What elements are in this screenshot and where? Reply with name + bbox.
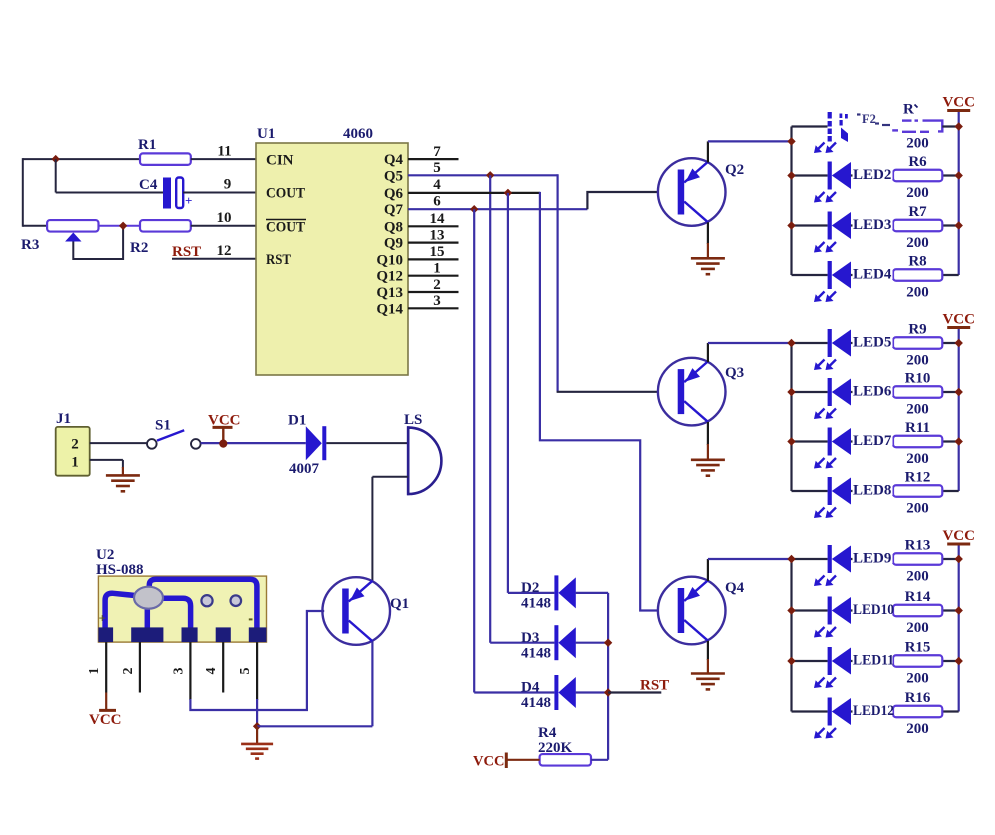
LED LED1 (partially erased) [828,112,832,119]
svg-text:+: + [185,193,192,208]
svg-text:VCC: VCC [473,754,504,770]
svg-text:D1: D1 [288,413,306,429]
svg-text:R12: R12 [905,470,931,486]
svg-text:LED5: LED5 [853,335,891,351]
wire row LED12 [792,710,828,712]
wire [707,343,709,362]
svg-text:4148: 4148 [521,645,551,661]
wire net Q7 (pin6) [408,208,587,210]
LED LED7 [828,428,832,456]
wire [508,592,555,594]
wire R3 wiper loop [73,226,123,259]
svg-text:RST: RST [172,244,201,260]
svg-text:200: 200 [906,353,929,369]
node junction [253,722,261,730]
wire [707,222,709,244]
svg-text:200: 200 [906,136,929,152]
svg-text:200: 200 [906,671,929,687]
svg-text:RST: RST [640,678,669,694]
svg-text:11: 11 [217,144,231,160]
wire pin 3 [408,307,459,309]
svg-text:R1: R1 [138,137,156,153]
svg-text:7: 7 [433,144,441,160]
svg-text:LED9: LED9 [853,551,891,567]
pad 3 [182,627,198,642]
svg-text:14: 14 [430,211,446,227]
svg-text:4060: 4060 [343,126,373,142]
resistor R6 200 [893,170,942,182]
wire [90,442,148,444]
melody chip blob [134,587,163,609]
wire LED bank 3 right bus [958,544,960,712]
node junction [604,688,612,696]
svg-text:R11: R11 [905,420,930,436]
svg-text:Q1: Q1 [390,596,409,612]
svg-text:LED7: LED7 [853,433,892,449]
diode D1 4007 [306,426,322,460]
svg-text:13: 13 [430,227,445,243]
node junction [955,657,963,665]
node junction [955,171,963,179]
wire pin5 [256,642,258,700]
wire [326,442,408,444]
LED LED9 [828,545,832,573]
wire [474,691,554,693]
wire [23,225,47,227]
svg-text:Q9: Q9 [384,236,403,252]
wire row LED10 [792,609,828,611]
node junction [486,171,494,179]
wire [99,225,141,227]
wire [707,141,709,162]
svg-text:R3: R3 [21,237,39,253]
svg-text:Q6: Q6 [384,186,404,202]
wire [507,193,509,593]
svg-text:RST: RST [266,252,291,268]
wire row LED1 [792,125,828,127]
wire LED bank 1 right bus [958,111,960,276]
power VCC [105,693,107,710]
transistor Q2 [658,158,726,226]
svg-text:3: 3 [171,668,186,675]
svg-text:2: 2 [71,437,79,453]
svg-text:Q4: Q4 [725,580,745,596]
resistor R1 [140,153,191,165]
wire [55,159,57,192]
svg-text:R9: R9 [908,322,926,338]
svg-text:LED6: LED6 [853,384,892,400]
svg-text:1: 1 [71,455,79,471]
LED LED10 [828,597,832,625]
wire row LED3 [792,224,828,226]
node junction [787,171,795,179]
diode D4 4148 [554,675,558,710]
svg-text:F2: F2 [862,112,876,126]
ground [691,458,725,461]
svg-text:S1: S1 [155,418,171,434]
svg-text:R10: R10 [905,371,931,387]
svg-text:R13: R13 [905,538,931,554]
wire [372,476,408,478]
wire row LED5 [792,342,828,344]
svg-text:VCC: VCC [942,528,975,544]
wire [576,592,609,594]
svg-text:5: 5 [433,160,441,176]
svg-text:Q5: Q5 [384,168,403,184]
wire pin3 [189,642,191,700]
svg-text:D4: D4 [521,680,540,696]
node junction [955,437,963,445]
wire pin4 [222,642,224,692]
wire [607,593,609,760]
node junction [787,606,795,614]
svg-text:Q7: Q7 [384,202,404,218]
svg-text:VCC: VCC [942,95,975,111]
node junction [955,555,963,563]
resistor R10 200 [893,386,942,398]
trace [145,606,151,630]
wire pin 13 [408,242,459,244]
LED LED3 [828,212,832,240]
ground [691,672,725,675]
wire [23,158,140,160]
svg-text:1: 1 [433,261,441,277]
LED LED12 [828,698,832,726]
LED LED4 [828,261,832,289]
svg-text:Q3: Q3 [725,365,744,381]
svg-text:R7: R7 [908,204,927,220]
net label RST wire [608,691,661,693]
svg-text:+: + [99,611,106,626]
node junction [787,555,795,563]
svg-text:U2: U2 [96,547,114,563]
svg-text:Q8: Q8 [384,219,403,235]
switch S1 [147,439,157,449]
svg-text:Q13: Q13 [376,285,403,301]
wire row LED2 [792,174,828,176]
svg-text:D3: D3 [521,630,539,646]
svg-text:4148: 4148 [521,596,551,612]
pad 2 [131,627,163,642]
node junction [955,221,963,229]
node junction [955,339,963,347]
wire pin 7 [408,158,459,160]
wire [576,691,609,693]
svg-text:R14: R14 [905,589,931,605]
svg-text:2: 2 [121,668,136,675]
wire [707,422,709,445]
svg-text:9: 9 [224,177,232,193]
trace [105,593,135,630]
hole [231,595,242,606]
svg-text:200: 200 [906,235,929,251]
svg-text:6: 6 [433,194,441,210]
node junction [787,137,795,145]
svg-text:15: 15 [430,244,445,260]
svg-text:LED12: LED12 [853,703,894,719]
node junction [119,222,127,230]
node junction [604,639,612,647]
wire net Q6 (pin4) [408,192,540,194]
svg-text:Q12: Q12 [376,269,403,285]
wire [22,158,24,227]
svg-text:4007: 4007 [289,461,320,477]
wire LED bank 2 left bus [790,343,792,491]
svg-text:D2: D2 [521,580,539,596]
svg-text:COUT: COUT [266,220,305,236]
node junction [219,440,227,448]
svg-text:200: 200 [906,451,929,467]
potentiometer R3 [47,220,98,232]
svg-text:R4: R4 [538,725,557,741]
wire row LED4 [792,274,828,276]
svg-text:4: 4 [433,177,441,193]
wire [489,175,491,642]
svg-text:LED4: LED4 [853,267,892,283]
svg-text:Q2: Q2 [725,162,744,178]
svg-text:LED8: LED8 [853,483,891,499]
svg-text:2: 2 [433,277,441,293]
resistor R2 [140,220,191,232]
node junction [787,339,795,347]
wire [90,459,123,461]
svg-text:200: 200 [906,501,929,517]
svg-text:C4: C4 [139,177,158,193]
svg-text:R6: R6 [908,154,927,170]
diode D3 4148 [554,625,558,660]
wire [707,559,709,581]
node junction [787,657,795,665]
wire net Q5 (pin5) [408,174,558,176]
node junction [787,388,795,396]
svg-text:R16: R16 [905,690,931,706]
transistor Q4 [658,577,726,645]
resistor R11 200 [893,436,942,448]
connector J1 [56,427,90,476]
ground [691,257,725,260]
svg-text:LED2: LED2 [853,167,891,183]
capacitor C4 [163,178,171,209]
wire [490,642,554,644]
wire [201,442,306,444]
wire [591,759,608,761]
pad 5 [249,627,267,642]
wire [576,642,609,644]
resistor R13 200 [893,553,942,565]
speaker LS [408,428,441,494]
svg-text:VCC: VCC [89,712,122,728]
wire row LED6 [792,391,828,393]
svg-text:12: 12 [217,243,232,259]
svg-text:LED10: LED10 [853,602,894,618]
resistor R12 200 [893,485,942,497]
wire pin2 [139,642,141,692]
pad 1 [98,627,113,642]
wire pin12 [172,258,256,260]
wire pin 15 [408,258,459,260]
svg-text:R: R [903,102,914,118]
wire pin1 [105,642,107,692]
resistor R8 200 [893,269,942,281]
resistor R15 200 [893,655,942,667]
node junction [470,205,478,213]
svg-text:LS: LS [404,412,422,428]
svg-text:200: 200 [906,620,929,636]
svg-text:R2: R2 [130,240,148,256]
wire [942,125,958,127]
resistor R7 200 [893,220,942,232]
transistor Q3 [658,358,726,426]
wire row LED11 [792,660,828,662]
svg-text:4: 4 [204,668,219,675]
transistor Q1 [322,577,390,645]
svg-text:200: 200 [906,285,929,301]
wire pin 14 [408,225,459,227]
svg-text:COUT: COUT [266,186,305,202]
resistor R14 200 [893,605,942,617]
node junction [787,221,795,229]
svg-text:5: 5 [238,668,253,675]
svg-text:LED3: LED3 [853,217,891,233]
node junction [955,388,963,396]
LED LED5 [828,329,832,357]
svg-text:4148: 4148 [521,695,551,711]
text remnant LED1 [857,113,861,115]
wire [473,209,475,692]
node junction [787,437,795,445]
resistor R16 200 [893,706,942,718]
LED LED11 [828,647,832,675]
svg-text:200: 200 [906,721,929,737]
svg-text:U1: U1 [257,126,275,142]
svg-text:200: 200 [906,402,929,418]
node junction [504,189,512,197]
svg-text:1: 1 [87,668,102,675]
diode D2 4148 [554,575,558,610]
wire pin9 [183,192,256,194]
svg-text:Q10: Q10 [376,252,403,268]
ground [106,474,140,477]
wire [257,725,372,727]
svg-text:LED11: LED11 [853,653,894,669]
svg-text:200: 200 [906,185,929,201]
hole [201,595,212,606]
wire row LED9 [792,558,828,560]
svg-text:R8: R8 [908,254,926,270]
LED LED2 [828,162,832,190]
LED LED8 [828,477,832,505]
LED LED6 [828,378,832,406]
svg-text:Q4: Q4 [384,152,404,168]
svg-text:Q14: Q14 [376,301,403,317]
svg-text:10: 10 [217,210,232,226]
node junction [955,606,963,614]
trace [161,598,191,630]
wire pin10 [191,225,256,227]
node junction [955,122,963,130]
wire [56,192,163,194]
wire row LED7 [792,440,828,442]
wire LED bank 1 left bus [790,127,792,276]
wire [707,641,709,660]
svg-text:VCC: VCC [942,312,975,328]
ground [256,726,258,744]
svg-text:J1: J1 [56,411,71,427]
pad 4 [216,627,231,642]
node junction [52,155,60,163]
svg-text:200: 200 [906,569,929,585]
wire pin11 [191,158,256,160]
wire pin 2 [408,291,459,293]
wire LED bank 3 left bus [790,559,792,712]
svg-text:CIN: CIN [266,153,294,169]
op-amp U1 4060 IC body [256,143,408,375]
resistor R9 200 [893,337,942,349]
wire pin 1 [408,275,459,277]
svg-text:R15: R15 [905,640,931,656]
wire row LED8 [792,490,828,492]
wire LED bank 2 right bus [958,328,960,492]
trace [149,579,257,630]
svg-text:3: 3 [433,293,441,309]
